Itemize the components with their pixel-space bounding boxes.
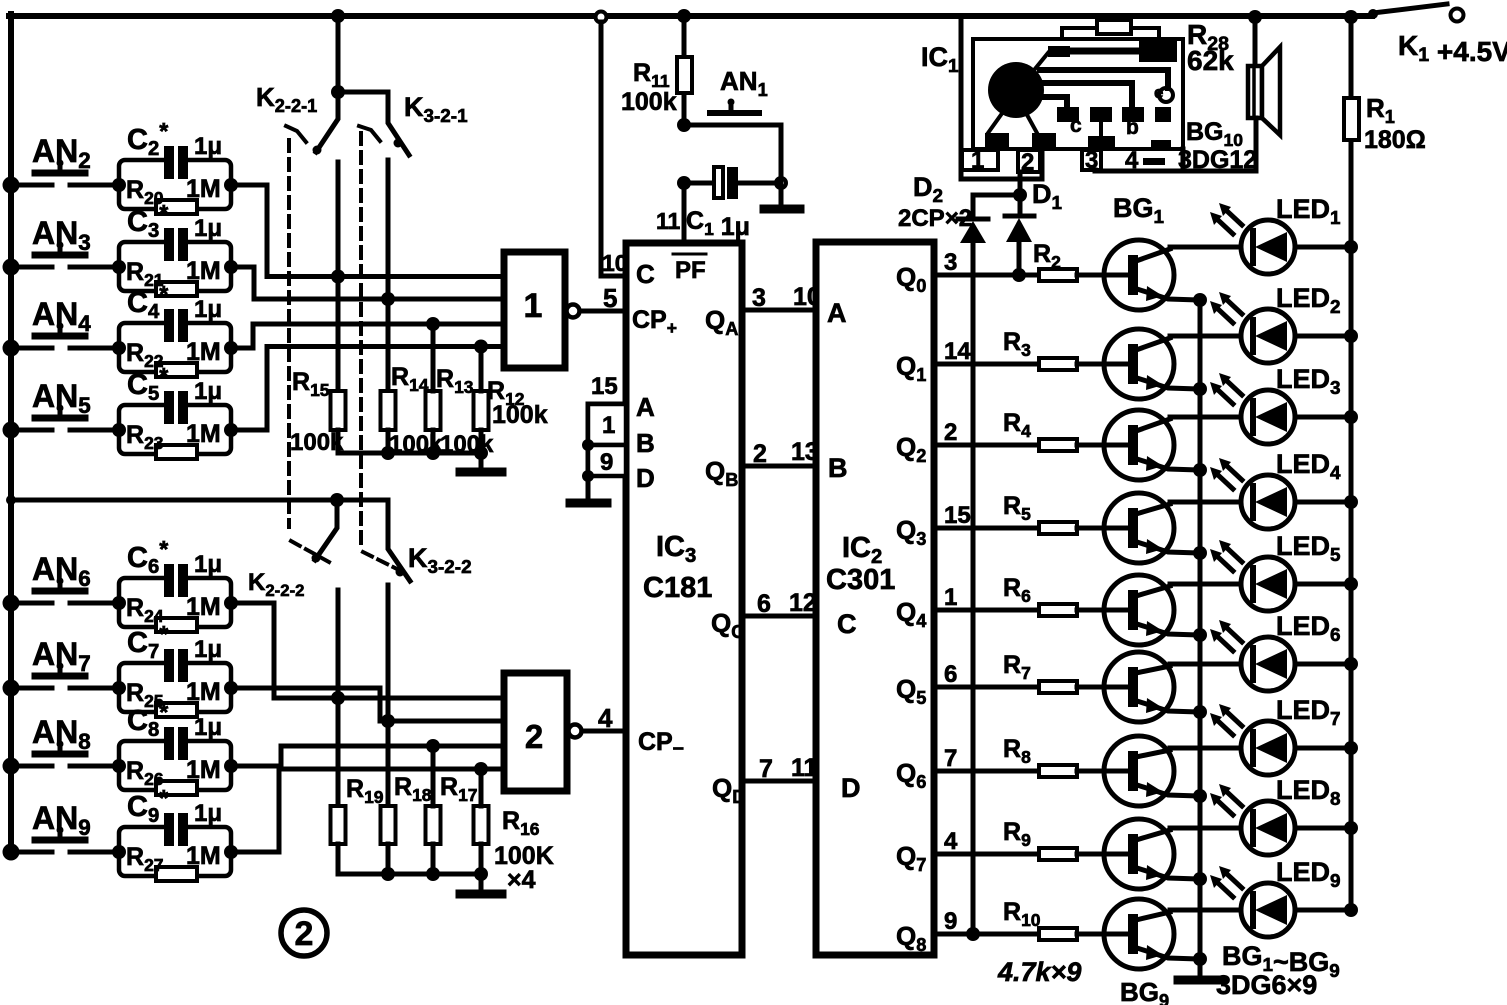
- RC box R23/C5 outline: [119, 405, 231, 454]
- resistor R7: [1039, 681, 1077, 693]
- wire R23 out to gate-1 input d: [231, 347, 504, 431]
- svg-text:14: 14: [944, 338, 971, 365]
- trace A-B: [1070, 48, 1139, 55]
- resistor R20 body: [156, 200, 197, 214]
- diode D2: [958, 217, 988, 222]
- capacitor C7 plates: [164, 649, 174, 682]
- blob leads to pins: [988, 112, 1037, 133]
- wire R26 out to gate-2 input c: [231, 746, 504, 766]
- svg-text:×4: ×4: [507, 866, 536, 894]
- resistor R9: [1039, 848, 1077, 860]
- wire LED4 to rail: [1295, 500, 1351, 505]
- wire R5 to base of BG4: [1077, 526, 1127, 531]
- resistor R14: [381, 391, 396, 430]
- svg-text:6: 6: [757, 590, 771, 618]
- trace to e: [1040, 70, 1168, 88]
- emitter wire of BG5: [1137, 624, 1200, 635]
- svg-text:100k: 100k: [290, 429, 344, 456]
- resistor R19: [331, 806, 346, 844]
- wire R24 out to gate-2 input a: [231, 603, 504, 698]
- push button AN7: [11, 686, 119, 691]
- svg-text:c: c: [1070, 114, 1082, 137]
- svg-text:C301: C301: [826, 564, 895, 596]
- wire: resistor bottoms bus 2: [338, 844, 481, 874]
- LED8 emission arrows: [1227, 792, 1242, 806]
- resistor R28: [1097, 20, 1131, 34]
- gate 1 output inverter circle: [567, 305, 580, 318]
- wire LED9 to rail: [1295, 908, 1351, 913]
- node: box terminals R27: [112, 845, 126, 859]
- svg-text:2: 2: [295, 915, 314, 953]
- resistor R3: [1039, 358, 1077, 370]
- resistor R4: [1039, 439, 1077, 451]
- capacitor C2 plates: [164, 146, 174, 179]
- RC box R21/C3 outline: [119, 242, 231, 291]
- wire QA to A: [742, 308, 816, 313]
- resistor R18: [381, 806, 396, 844]
- wire Q5 to R7: [934, 685, 1039, 690]
- white gap between capacitor plates: [174, 649, 178, 682]
- node: box terminals R24: [112, 596, 126, 610]
- resistor R26 body: [156, 781, 197, 795]
- wire LED6 to rail: [1295, 662, 1351, 667]
- capacitor C4 plates: [164, 309, 174, 342]
- push button AN4: [11, 346, 119, 351]
- wire to D2: [973, 195, 1020, 219]
- svg-text:3: 3: [752, 284, 766, 312]
- svg-text:1: 1: [524, 287, 543, 325]
- svg-text:1M: 1M: [186, 756, 221, 784]
- push button AN9: [11, 850, 119, 855]
- resistor R16: [474, 806, 489, 844]
- wire: K3-2-2 to R18 / gate input: [386, 585, 391, 806]
- LED7: [1241, 721, 1295, 775]
- ground of emitter bus: [1178, 976, 1222, 985]
- LED6: [1241, 637, 1295, 691]
- svg-text:1M: 1M: [186, 842, 221, 870]
- svg-text:7: 7: [944, 745, 957, 772]
- transistor BG6: [1104, 652, 1174, 722]
- pad e2: [1155, 107, 1171, 122]
- LED5: [1241, 557, 1295, 611]
- LED4: [1241, 475, 1295, 529]
- svg-text:1M: 1M: [186, 257, 221, 285]
- resistor R1: [1344, 98, 1359, 140]
- svg-text:4: 4: [944, 828, 958, 855]
- svg-text:B: B: [636, 428, 655, 458]
- resistor R17: [426, 806, 441, 844]
- wire R12 top to gate input d: [479, 347, 484, 392]
- wire R25 out to gate-2 input b: [231, 688, 504, 721]
- LED8: [1241, 801, 1295, 855]
- svg-text:7: 7: [759, 755, 773, 783]
- collector wire to LED7: [1170, 746, 1241, 751]
- emitter wire of BG7: [1137, 785, 1200, 796]
- svg-text:1M: 1M: [186, 420, 221, 448]
- transistor BG8: [1104, 819, 1174, 889]
- wire R17 top to gate-2 input c: [431, 746, 436, 806]
- white gap between capacitor plates: [174, 228, 178, 261]
- push button AN2: [11, 183, 119, 188]
- collector wire to LED4: [1170, 500, 1241, 505]
- LED7 emission arrows: [1227, 712, 1242, 726]
- svg-text:b: b: [1126, 116, 1139, 139]
- wire R16 top to gate-2 input d: [479, 769, 484, 806]
- LED3: [1241, 390, 1295, 444]
- svg-text:1M: 1M: [186, 593, 221, 621]
- resistor R24 body: [156, 618, 197, 632]
- node: box terminals R22: [112, 341, 126, 355]
- svg-text:A: A: [636, 392, 655, 422]
- wire R10 to base of BG9: [1077, 932, 1127, 937]
- capacitor C8 plates: [164, 727, 174, 760]
- collector wire to LED5: [1170, 582, 1241, 587]
- RC box R20/C2 outline: [119, 160, 231, 209]
- svg-text:3DG6×9: 3DG6×9: [1216, 970, 1317, 1000]
- svg-text:1μ: 1μ: [194, 296, 222, 323]
- svg-text:B: B: [828, 453, 848, 483]
- white gap between capacitor plates: [174, 564, 178, 597]
- collector wire to LED3: [1170, 415, 1241, 420]
- LED5 emission arrows: [1227, 548, 1242, 562]
- svg-text:1M: 1M: [186, 338, 221, 366]
- svg-text:9: 9: [944, 908, 957, 935]
- resistor R6: [1039, 604, 1077, 616]
- node: junctions on top rail: [331, 9, 345, 23]
- wire R6 to base of BG5: [1077, 608, 1127, 613]
- LED3 emission arrows: [1227, 381, 1242, 395]
- RC box R27/C9 outline: [119, 827, 231, 876]
- svg-text:4: 4: [598, 703, 613, 733]
- wire: K2-2-1 to R15 / gate input: [336, 162, 341, 391]
- wire/pin 10 into C: [596, 12, 607, 23]
- svg-text:PF: PF: [675, 257, 706, 284]
- collector wire to LED6: [1170, 662, 1241, 667]
- svg-text:100k: 100k: [440, 431, 494, 458]
- white gap between capacitor plates: [174, 309, 178, 342]
- svg-text:2CP×2: 2CP×2: [898, 205, 972, 232]
- wire Q1 to R3: [934, 362, 1039, 367]
- emitter wire of BG8: [1137, 868, 1200, 879]
- collector wire to LED9: [1170, 908, 1241, 913]
- LED2: [1241, 309, 1295, 363]
- top-right pad B: [1139, 41, 1177, 62]
- resistor R5: [1039, 522, 1077, 534]
- wire R27 out to gate-2 input d: [231, 769, 504, 852]
- svg-text:1μ: 1μ: [194, 215, 222, 242]
- ground under tie-down: [570, 499, 607, 508]
- wire Q3 to R5: [934, 526, 1039, 531]
- svg-text:5: 5: [603, 283, 617, 313]
- svg-text:1μ: 1μ: [194, 551, 222, 578]
- wire LED5 to rail: [1295, 582, 1351, 587]
- node gate-2 input junctions: [331, 691, 345, 705]
- wire from IC1 pin2 down: [1018, 172, 1023, 195]
- wire R13 top to gate input c: [431, 324, 436, 391]
- capacitor C5 plates: [164, 391, 174, 424]
- wire gate1 out to CP+: [580, 309, 626, 314]
- node: box terminals R25: [112, 681, 126, 695]
- collector wire to LED2: [1170, 334, 1241, 339]
- LED6 emission arrows: [1227, 628, 1242, 642]
- pin 1 box: [962, 150, 998, 170]
- svg-text:1M: 1M: [186, 678, 221, 706]
- wire LED7 to rail: [1295, 746, 1351, 751]
- resistor R2: [1039, 269, 1077, 281]
- wire R8 to base of BG7: [1077, 769, 1127, 774]
- anode rail from R1: [1349, 17, 1354, 910]
- wire D2 to Q8 row: [971, 243, 976, 934]
- trace to b: [1040, 83, 1132, 107]
- LED9 emission arrows: [1227, 874, 1242, 888]
- capacitor C9 plates: [164, 813, 174, 846]
- svg-text:1: 1: [944, 584, 957, 611]
- pin 3 box: [1082, 150, 1101, 170]
- capacitor C1: [677, 176, 691, 190]
- wire: left common rail: [8, 14, 14, 852]
- bottom pads: [985, 133, 1009, 149]
- emitter common bus: [1198, 300, 1203, 975]
- white gap between capacitor plates: [174, 727, 178, 760]
- wire: top +4.5V rail: [9, 13, 1372, 19]
- svg-text:C: C: [837, 609, 857, 639]
- resistor R8: [1039, 765, 1077, 777]
- wire QD to D: [742, 779, 816, 784]
- emitter wire of BG3: [1137, 459, 1200, 470]
- svg-text:D: D: [636, 463, 655, 493]
- capacitor C6 plates: [164, 564, 174, 597]
- transistor BG5: [1104, 575, 1174, 645]
- pad b: [1122, 107, 1144, 122]
- resistor R11: [682, 16, 687, 125]
- white gap between capacitor plates: [174, 146, 178, 179]
- svg-text:100k: 100k: [389, 431, 443, 458]
- figure number 2 circled: [281, 910, 327, 956]
- svg-text:1M: 1M: [186, 175, 221, 203]
- svg-text:62k: 62k: [1187, 45, 1234, 76]
- svg-text:1: 1: [971, 147, 984, 174]
- white gap between capacitor plates: [174, 391, 178, 424]
- gate 2 output inverter circle: [569, 725, 582, 738]
- mechanical linkage dashed K3: [359, 133, 363, 549]
- resistor R12: [474, 391, 489, 430]
- svg-text:1μ: 1μ: [194, 636, 222, 663]
- svg-text:A: A: [827, 298, 847, 328]
- wire R22 out to gate-1 input c: [231, 324, 504, 348]
- wire LED1 to rail: [1295, 245, 1351, 250]
- wire LED2 to rail: [1295, 334, 1351, 339]
- pad mid: [1090, 107, 1112, 122]
- switch K1: [1368, 9, 1378, 19]
- capacitor C3 plates: [164, 228, 174, 261]
- svg-text:e: e: [1154, 83, 1163, 102]
- wire R3 to base of BG2: [1077, 362, 1127, 367]
- transistor BG3: [1104, 410, 1174, 480]
- LED1: [1241, 220, 1295, 274]
- wire R21 out to gate-1 input b: [231, 267, 504, 299]
- wire Q6 to R8: [934, 769, 1039, 774]
- wire R7 to base of BG6: [1077, 685, 1127, 690]
- switch K3-2-1: [338, 92, 409, 155]
- node: box terminals R26: [112, 759, 126, 773]
- wire Q7 to R9: [934, 852, 1039, 857]
- wire Q0 to R2: [934, 273, 1039, 278]
- wire speaker to IC1 pin3: [1095, 118, 1256, 171]
- push button AN8: [11, 764, 119, 769]
- LED2 emission arrows: [1227, 300, 1242, 314]
- collector wire to LED1: [1170, 245, 1241, 250]
- node gate-1 input junctions: [331, 270, 345, 284]
- switch K3-2-2: [337, 500, 410, 581]
- wire Q2 to R4: [934, 443, 1039, 448]
- resistor R21 body: [156, 282, 197, 296]
- wire LED8 to rail: [1295, 826, 1351, 831]
- IC1 board: [973, 39, 1183, 149]
- mechanical linkage dashed K2: [287, 140, 291, 527]
- resistor R13: [426, 391, 441, 430]
- LED4 emission arrows: [1227, 466, 1242, 480]
- transistor BG4: [1104, 493, 1174, 563]
- gate block 1: [504, 252, 565, 368]
- svg-text:10: 10: [602, 250, 628, 276]
- ground under C1: [764, 205, 800, 214]
- wire R20 out to gate-1 input a: [231, 185, 504, 277]
- emitter wire of BG1: [1137, 289, 1200, 300]
- emitter wire of BG6: [1137, 701, 1200, 712]
- svg-text:C: C: [636, 259, 655, 289]
- resistor R10: [1039, 928, 1077, 940]
- LED1 emission arrows: [1227, 211, 1242, 225]
- IC1 container outline: [961, 16, 1042, 179]
- wire R11 node to IC3 pin 11: [682, 183, 687, 243]
- speaker: [1248, 66, 1262, 118]
- bond pad A: [1048, 46, 1070, 57]
- emitter wire of BG4: [1137, 542, 1200, 553]
- wire R9 to base of BG8: [1077, 852, 1127, 857]
- node: box terminals R23: [112, 423, 126, 437]
- node: box terminals R20: [112, 178, 126, 192]
- wire: K2-2-2 to R19 / gate input: [336, 590, 341, 806]
- pad c: [1057, 107, 1079, 122]
- push button AN5: [11, 428, 119, 433]
- wire gate2 out to CP-: [582, 729, 626, 734]
- collector wire to LED8: [1170, 826, 1241, 831]
- push button AN6: [11, 601, 119, 606]
- RC box R26/C8 outline: [119, 741, 231, 790]
- wire top rail to speaker: [1253, 17, 1258, 66]
- transistor BG2: [1104, 329, 1174, 399]
- resistor R25 body: [156, 703, 197, 717]
- IC2 C301 box: [816, 242, 934, 955]
- node: box terminals R21: [112, 260, 126, 274]
- wire QC to C: [742, 614, 816, 619]
- svg-text:C181: C181: [643, 572, 712, 604]
- svg-text:2: 2: [944, 419, 957, 446]
- wire: common bus to lower switches: [11, 498, 388, 503]
- svg-text:1μ: 1μ: [194, 133, 222, 160]
- LED9: [1241, 883, 1295, 937]
- wire: K3-2-1 to R14 / gate input: [386, 160, 391, 391]
- svg-text:4.7k×9: 4.7k×9: [997, 957, 1081, 987]
- ground under R16: [479, 874, 484, 890]
- emitter wire of BG2: [1137, 378, 1200, 389]
- svg-text:100k: 100k: [621, 88, 677, 116]
- gate block 2: [504, 673, 567, 791]
- push button AN1: [677, 118, 691, 132]
- IC1 chip blob: [988, 62, 1044, 118]
- resistor R22 body: [156, 363, 197, 377]
- push button AN3: [11, 265, 119, 270]
- svg-text:180Ω: 180Ω: [1364, 126, 1426, 154]
- svg-text:9: 9: [600, 449, 613, 476]
- wire Q4 to R6: [934, 608, 1039, 613]
- svg-text:3: 3: [944, 249, 957, 276]
- white gap between capacitor plates: [174, 813, 178, 846]
- pin 2 box: [1018, 150, 1040, 172]
- svg-text:2: 2: [525, 718, 543, 755]
- emitter wire of BG9: [1137, 948, 1200, 959]
- resistor R23 body: [156, 445, 197, 459]
- RC box R24/C6 outline: [119, 578, 231, 627]
- svg-text:2: 2: [753, 440, 767, 468]
- wire: resistor bottoms bus: [338, 430, 481, 453]
- transistor BG1: [1104, 240, 1174, 310]
- switch K2-2-1: [336, 16, 341, 92]
- RC box R25/C7 outline: [119, 663, 231, 712]
- diode D1: [1018, 195, 1023, 216]
- resistor R27 body: [156, 867, 197, 881]
- transistor BG7: [1104, 736, 1174, 806]
- svg-text:1: 1: [602, 412, 615, 439]
- wire Q8 to R10: [934, 932, 1039, 937]
- svg-text:1μ: 1μ: [194, 714, 222, 741]
- svg-text:1μ: 1μ: [194, 378, 222, 405]
- e terminal circle: [1159, 88, 1173, 102]
- wire R4 to base of BG3: [1077, 443, 1127, 448]
- IC3 C181 box: [626, 243, 742, 955]
- wire QB to B: [742, 464, 816, 469]
- switch K2-2-2: [315, 500, 337, 560]
- wire LED3 to rail: [1295, 415, 1351, 420]
- RC box R22/C4 outline: [119, 323, 231, 372]
- svg-text:2: 2: [1021, 149, 1034, 176]
- wire D1 to Q0 row: [1017, 242, 1022, 275]
- svg-text:11: 11: [656, 208, 681, 234]
- wire C1 right to ground: [776, 178, 786, 188]
- resistor R15: [331, 391, 346, 430]
- svg-text:6: 6: [944, 661, 957, 688]
- trace to c: [1040, 97, 1067, 107]
- svg-text:15: 15: [944, 502, 971, 529]
- svg-text:1μ: 1μ: [194, 800, 222, 827]
- svg-text:100k: 100k: [492, 401, 548, 429]
- svg-text:D: D: [841, 773, 861, 803]
- ground under R12: [479, 453, 484, 468]
- svg-text:15: 15: [591, 373, 618, 400]
- transistor BG9: [1104, 899, 1174, 969]
- wire R2 to base of BG1: [1077, 273, 1127, 278]
